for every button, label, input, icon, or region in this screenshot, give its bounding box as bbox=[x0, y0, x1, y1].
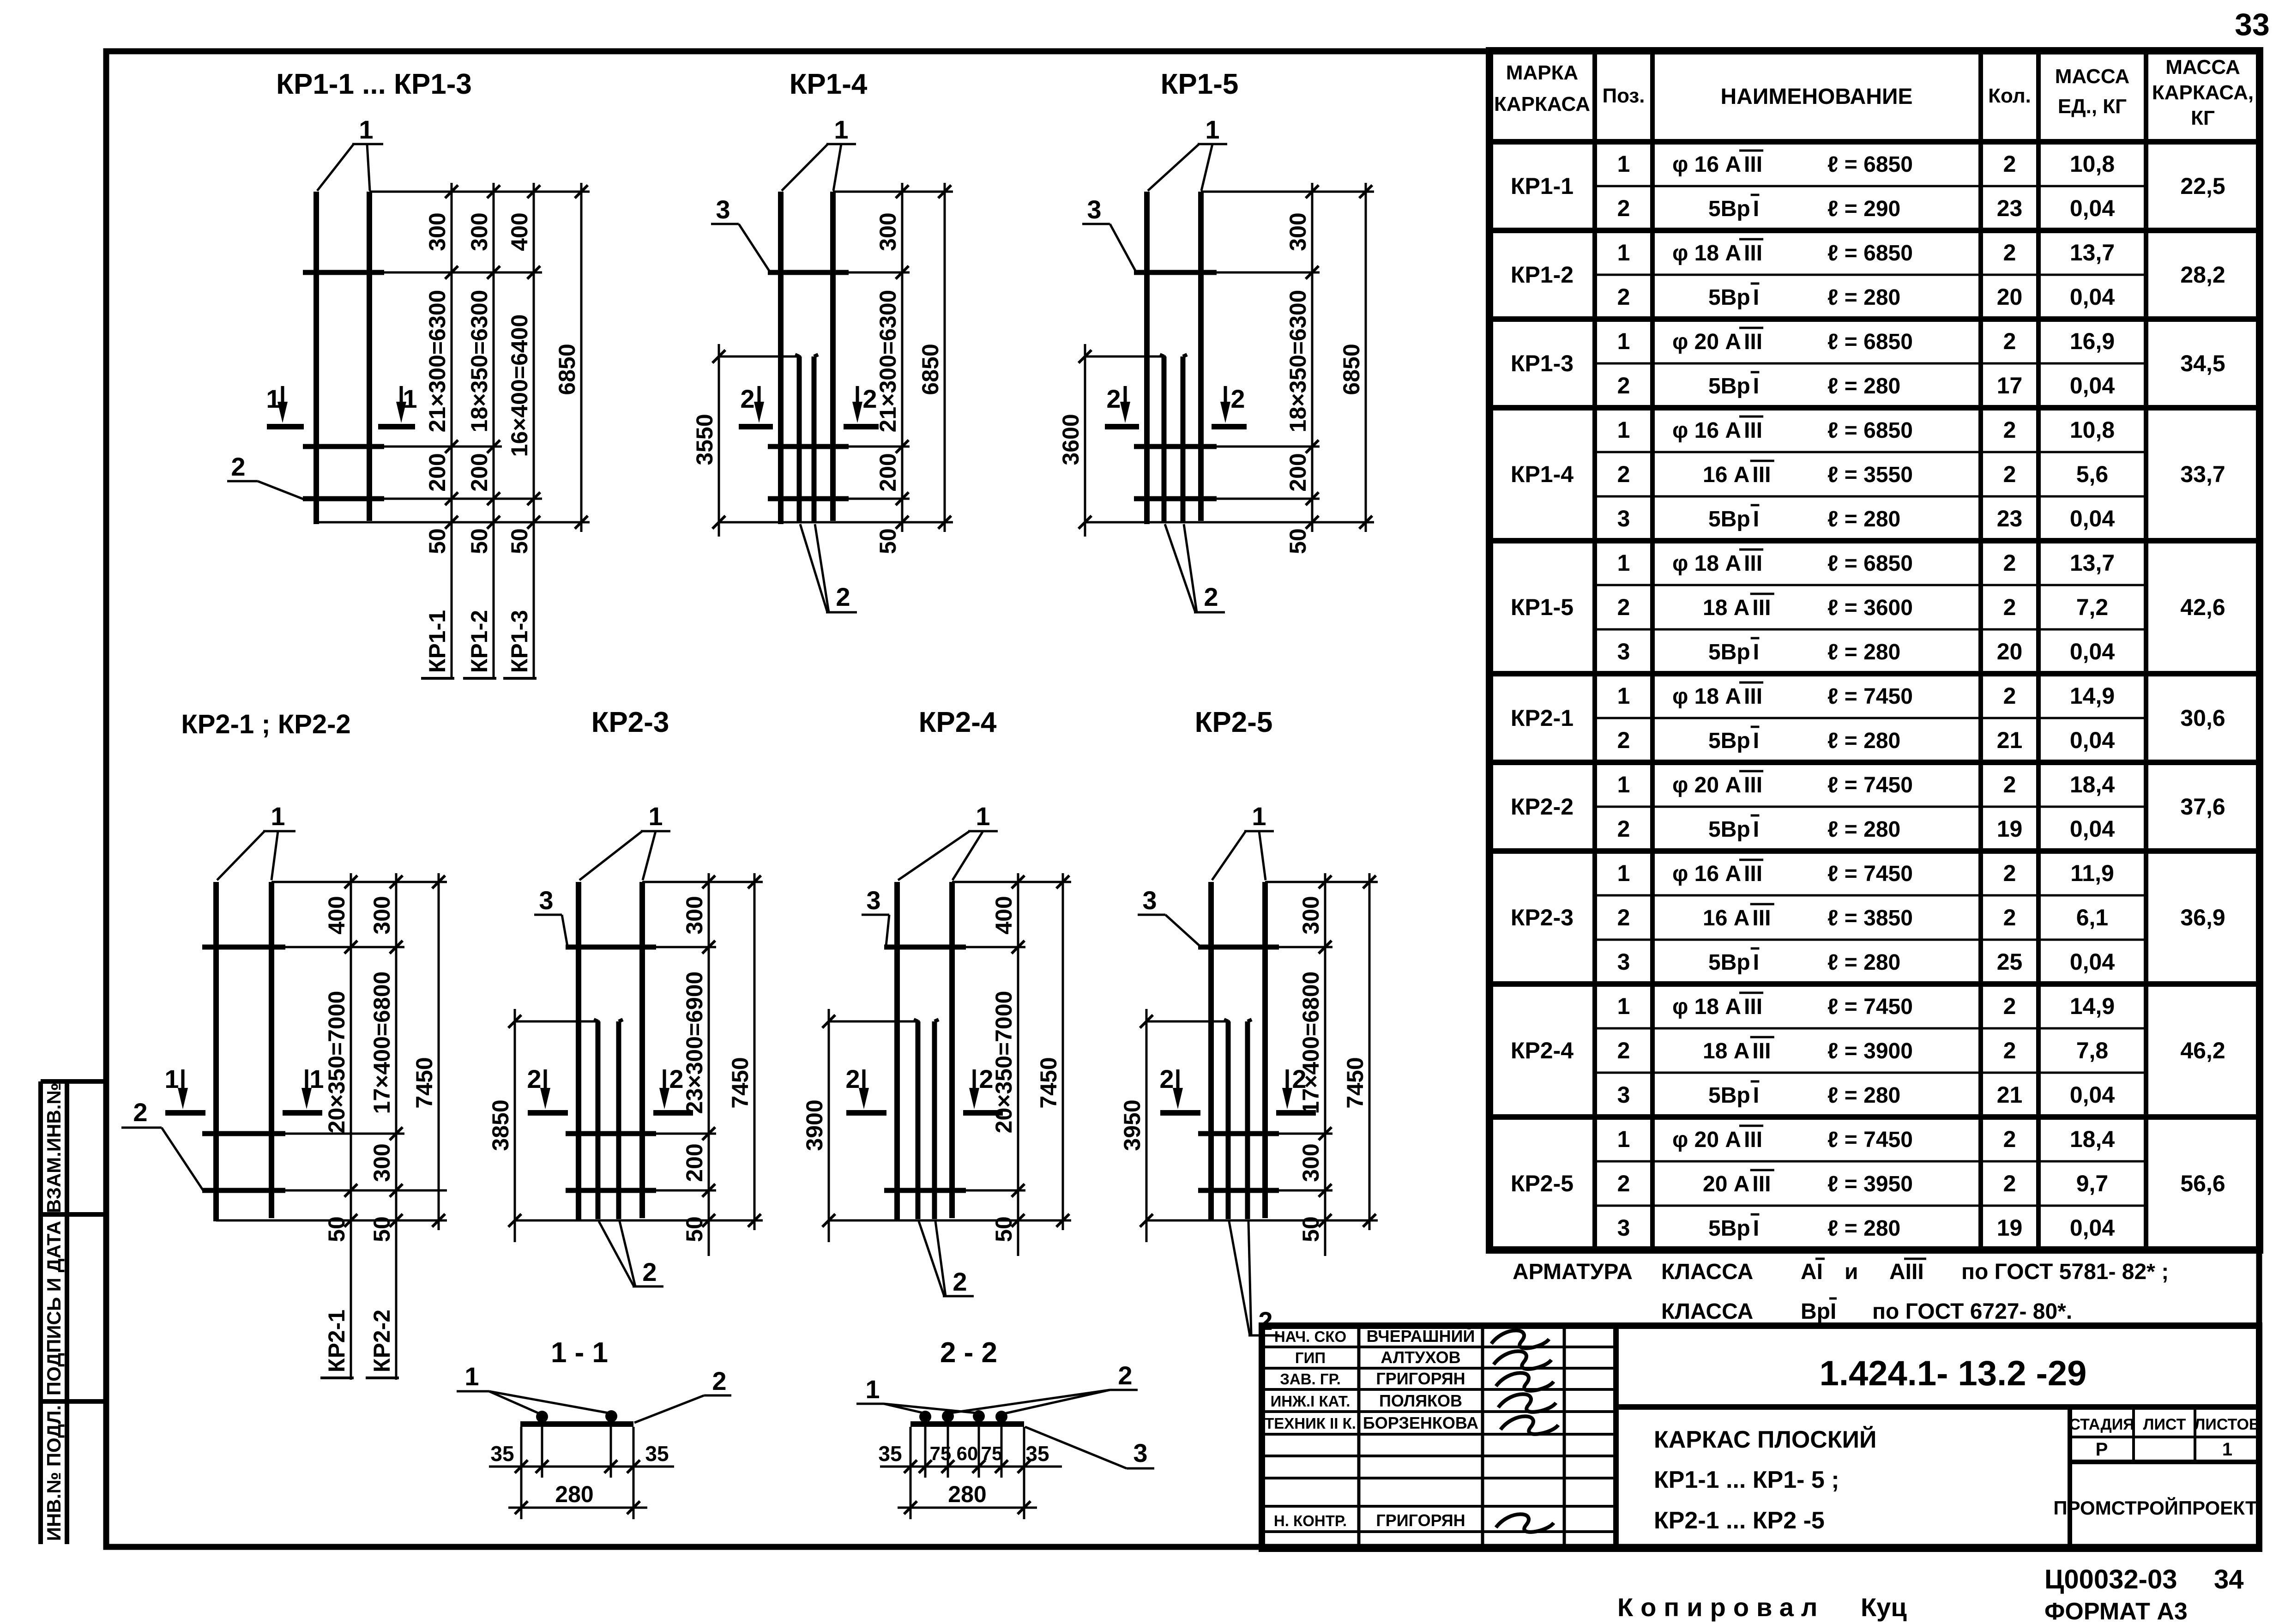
svg-text:3: 3 bbox=[1617, 949, 1630, 975]
svg-text:18 АIII: 18 АIII bbox=[1703, 1039, 1771, 1063]
svg-text:ГИП: ГИП bbox=[1295, 1349, 1326, 1366]
svg-text:ℓ = 3550: ℓ = 3550 bbox=[1827, 463, 1913, 487]
svg-text:ℓ = 7450: ℓ = 7450 bbox=[1827, 684, 1913, 709]
dimension line bbox=[1365, 183, 1367, 532]
svg-text:0,04: 0,04 bbox=[2070, 1082, 2115, 1108]
svg-text:20×350=7000: 20×350=7000 bbox=[991, 991, 1017, 1134]
svg-text:2: 2 bbox=[527, 1064, 541, 1093]
dimension line bbox=[1062, 873, 1064, 1230]
dimension line bbox=[451, 183, 453, 678]
svg-text:АIII: АIII bbox=[1889, 1260, 1924, 1284]
svg-text:0,04: 0,04 bbox=[2070, 816, 2115, 842]
svg-text:21×300=6300: 21×300=6300 bbox=[875, 290, 901, 433]
svg-text:ℓ = 7450: ℓ = 7450 bbox=[1827, 773, 1913, 797]
svg-text:0,04: 0,04 bbox=[2070, 195, 2115, 221]
svg-text:7450: 7450 bbox=[411, 1057, 437, 1108]
table block КР1-2 bbox=[1489, 316, 2260, 322]
KR2-1 longitudinal bar right bbox=[269, 882, 274, 1218]
svg-text:1: 1 bbox=[1617, 860, 1630, 886]
svg-text:ГРИГОРЯН: ГРИГОРЯН bbox=[1376, 1511, 1465, 1530]
svg-text:ℓ = 7450: ℓ = 7450 bbox=[1827, 995, 1913, 1019]
svg-text:7,2: 7,2 bbox=[2076, 594, 2109, 620]
svg-text:2: 2 bbox=[2003, 328, 2016, 354]
КР2-5 witness lines bbox=[1265, 881, 1378, 883]
svg-text:3: 3 bbox=[866, 886, 880, 915]
svg-text:3: 3 bbox=[1617, 1215, 1630, 1241]
КР1-5 tie bottom bbox=[1134, 496, 1217, 501]
svg-text:1.424.1- 13.2 -29: 1.424.1- 13.2 -29 bbox=[1820, 1354, 2087, 1393]
svg-text:10,8: 10,8 bbox=[2070, 417, 2115, 443]
svg-text:КАРКАС ПЛОСКИЙ: КАРКАС ПЛОСКИЙ bbox=[1654, 1426, 1876, 1453]
svg-text:КР2-1 ; КР2-2: КР2-1 ; КР2-2 bbox=[181, 709, 350, 739]
КР2-4 rod pos2 left bbox=[916, 1021, 921, 1219]
svg-text:КАРКАСА: КАРКАСА bbox=[1494, 93, 1590, 115]
table block КР2-2 bbox=[1489, 848, 2260, 854]
table vertical lines bbox=[1592, 51, 1597, 1250]
svg-text:КР1-3: КР1-3 bbox=[1511, 350, 1574, 376]
svg-text:ПОДПИСЬ И ДАТА: ПОДПИСЬ И ДАТА bbox=[43, 1221, 65, 1395]
svg-text:0,04: 0,04 bbox=[2070, 506, 2115, 531]
КР2-4 left dimension bbox=[828, 1009, 830, 1242]
svg-text:2: 2 bbox=[2003, 1038, 2016, 1063]
svg-text:КР2-1: КР2-1 bbox=[1511, 705, 1574, 731]
svg-text:2: 2 bbox=[1617, 284, 1630, 310]
svg-text:ЗАВ. ГР.: ЗАВ. ГР. bbox=[1280, 1370, 1341, 1388]
svg-text:18×350=6300: 18×350=6300 bbox=[1285, 290, 1311, 433]
svg-text:КР2-2: КР2-2 bbox=[1511, 794, 1574, 820]
svg-text:2: 2 bbox=[836, 582, 850, 611]
svg-text:28,2: 28,2 bbox=[2180, 262, 2225, 288]
svg-text:37,6: 37,6 bbox=[2180, 794, 2225, 820]
svg-text:50: 50 bbox=[875, 528, 901, 554]
section 1-1 bar dot right bbox=[605, 1410, 617, 1422]
title block signatures bbox=[1491, 1330, 1549, 1348]
table block КР2-4 bbox=[1489, 1114, 2260, 1120]
svg-text:3: 3 bbox=[1142, 886, 1157, 915]
КР2-5 tie top bbox=[1198, 945, 1279, 950]
svg-text:1: 1 bbox=[834, 115, 848, 144]
svg-text:200: 200 bbox=[1285, 453, 1311, 491]
svg-text:2: 2 bbox=[1204, 582, 1218, 611]
KR2-1 witness lines bbox=[271, 881, 447, 883]
svg-text:17×400=6800: 17×400=6800 bbox=[1298, 972, 1324, 1114]
svg-text:300: 300 bbox=[369, 1143, 395, 1182]
svg-text:200: 200 bbox=[875, 453, 901, 491]
dimension line bbox=[395, 873, 398, 1380]
КР1-5 longitudinal bar right bbox=[1198, 192, 1204, 521]
svg-text:ЛИСТ: ЛИСТ bbox=[2143, 1416, 2186, 1433]
svg-text:2: 2 bbox=[2003, 461, 2016, 487]
svg-text:20: 20 bbox=[1997, 284, 2023, 310]
svg-text:1: 1 bbox=[1617, 151, 1630, 177]
svg-text:1: 1 bbox=[164, 1064, 179, 1093]
svg-text:20×350=7000: 20×350=7000 bbox=[324, 991, 350, 1134]
svg-text:1: 1 bbox=[1617, 328, 1630, 354]
table header bottom line bbox=[1489, 139, 2260, 145]
svg-text:МАССА: МАССА bbox=[2055, 65, 2130, 88]
svg-text:1: 1 bbox=[309, 1064, 324, 1093]
svg-text:Р: Р bbox=[2096, 1439, 2108, 1460]
svg-text:18,4: 18,4 bbox=[2070, 772, 2115, 797]
svg-text:400: 400 bbox=[991, 896, 1017, 934]
dimension line bbox=[493, 183, 495, 678]
svg-text:2: 2 bbox=[1617, 594, 1630, 620]
svg-text:ℓ = 280: ℓ = 280 bbox=[1827, 1216, 1900, 1241]
svg-text:35: 35 bbox=[1025, 1442, 1049, 1466]
svg-text:ℓ = 280: ℓ = 280 bbox=[1827, 1083, 1900, 1108]
svg-text:2: 2 bbox=[642, 1257, 657, 1286]
table block КР1-4 bbox=[1489, 538, 2260, 543]
КР2-3 longitudinal bar right bbox=[639, 882, 645, 1218]
svg-text:1: 1 bbox=[464, 1362, 479, 1391]
svg-text:2: 2 bbox=[2003, 550, 2016, 576]
svg-text:6850: 6850 bbox=[1338, 344, 1364, 395]
dimension line bbox=[580, 183, 583, 532]
svg-text:7450: 7450 bbox=[1342, 1057, 1368, 1108]
svg-text:20 АIII: 20 АIII bbox=[1703, 1172, 1771, 1196]
svg-text:2: 2 bbox=[1617, 373, 1630, 398]
svg-text:33: 33 bbox=[2235, 7, 2270, 42]
svg-text:Кол.: Кол. bbox=[1988, 85, 2031, 107]
side strip label PODPIS I DATA bbox=[43, 1221, 65, 1395]
svg-text:ВЗАМ.ИНВ.№: ВЗАМ.ИНВ.№ bbox=[43, 1083, 65, 1213]
svg-text:1: 1 bbox=[1617, 772, 1630, 797]
КР1-4 tie bottom bbox=[768, 496, 849, 501]
dimension label КР1-2 bbox=[466, 610, 492, 673]
section 1-1 dim line 280 bbox=[508, 1507, 647, 1509]
svg-text:300: 300 bbox=[875, 212, 901, 251]
svg-text:ЕД., КГ: ЕД., КГ bbox=[2058, 95, 2127, 118]
KR1-1 tie bottom bbox=[303, 496, 384, 501]
dimension line bbox=[1369, 873, 1371, 1230]
section 1-1 witness lines bbox=[520, 1427, 523, 1519]
svg-text:КР1-4: КР1-4 bbox=[790, 68, 868, 100]
svg-text:6,1: 6,1 bbox=[2076, 905, 2109, 930]
svg-text:Копировал: Копировал bbox=[1617, 1593, 1825, 1622]
КР1-5 longitudinal bar left bbox=[1144, 192, 1150, 524]
svg-text:0,04: 0,04 bbox=[2070, 639, 2115, 664]
svg-text:6850: 6850 bbox=[554, 344, 580, 395]
svg-text:46,2: 46,2 bbox=[2180, 1038, 2225, 1063]
КР2-5 tie bottom bbox=[1198, 1188, 1279, 1193]
svg-text:50: 50 bbox=[369, 1216, 395, 1242]
svg-text:21×300=6300: 21×300=6300 bbox=[424, 290, 450, 433]
svg-text:50: 50 bbox=[1298, 1216, 1324, 1242]
svg-text:ПОЛЯКОВ: ПОЛЯКОВ bbox=[1379, 1391, 1462, 1410]
svg-text:2: 2 bbox=[1118, 1361, 1132, 1390]
svg-text:КР2-5: КР2-5 bbox=[1511, 1171, 1574, 1196]
svg-text:1: 1 bbox=[359, 115, 373, 144]
svg-text:НАИМЕНОВАНИЕ: НАИМЕНОВАНИЕ bbox=[1721, 85, 1913, 109]
table block КР1-1 bbox=[1489, 228, 2260, 233]
svg-text:φ 20 АIII: φ 20 АIII bbox=[1672, 1128, 1762, 1152]
svg-text:42,6: 42,6 bbox=[2180, 594, 2225, 620]
table block КР2-1 bbox=[1489, 760, 2260, 765]
svg-text:34,5: 34,5 bbox=[2180, 350, 2225, 376]
svg-text:ℓ = 280: ℓ = 280 bbox=[1827, 729, 1900, 753]
title block row lines bbox=[1262, 1346, 1616, 1348]
КР1-4 tie top bbox=[768, 270, 849, 275]
svg-text:3: 3 bbox=[1087, 195, 1101, 224]
svg-text:КР1-1: КР1-1 bbox=[1511, 173, 1574, 199]
svg-text:2: 2 bbox=[2003, 683, 2016, 709]
svg-text:2: 2 bbox=[1617, 1171, 1630, 1196]
svg-text:1: 1 bbox=[266, 384, 280, 413]
svg-text:300: 300 bbox=[466, 212, 492, 251]
svg-text:КР2-4: КР2-4 bbox=[919, 706, 997, 738]
dimension line bbox=[350, 873, 352, 1380]
svg-text:по ГОСТ 6727- 80*.: по ГОСТ 6727- 80*. bbox=[1872, 1299, 2072, 1324]
svg-text:1: 1 bbox=[648, 802, 663, 831]
svg-text:1: 1 bbox=[1617, 240, 1630, 266]
dimension label КР1-3 bbox=[506, 610, 532, 673]
svg-text:7450: 7450 bbox=[1036, 1057, 1061, 1108]
section 2-2 bar dot 4 bbox=[995, 1411, 1007, 1423]
svg-text:300: 300 bbox=[681, 896, 707, 934]
svg-text:21: 21 bbox=[1997, 727, 2023, 753]
svg-text:КР1-5: КР1-5 bbox=[1511, 594, 1574, 620]
svg-text:2: 2 bbox=[2003, 1126, 2016, 1152]
svg-text:2: 2 bbox=[740, 384, 754, 413]
КР2-3 rod pos2 left bbox=[596, 1021, 601, 1219]
КР1-4 longitudinal bar right bbox=[830, 192, 836, 521]
svg-text:МАССА: МАССА bbox=[2165, 56, 2240, 78]
section 2-2 plate wire pos3 bbox=[910, 1421, 1024, 1427]
svg-text:КР2-3: КР2-3 bbox=[591, 706, 669, 738]
svg-text:ℓ = 290: ℓ = 290 bbox=[1827, 197, 1900, 221]
svg-text:ℓ = 280: ℓ = 280 bbox=[1827, 640, 1900, 664]
svg-text:2: 2 bbox=[1617, 816, 1630, 842]
dimension line bbox=[533, 183, 535, 678]
svg-text:ℓ = 280: ℓ = 280 bbox=[1827, 285, 1900, 310]
svg-text:3600: 3600 bbox=[1058, 414, 1084, 465]
title block stadia grid bbox=[2068, 1407, 2072, 1549]
svg-text:300: 300 bbox=[369, 896, 395, 934]
КР2-4 longitudinal bar right bbox=[949, 882, 955, 1218]
svg-text:3950: 3950 bbox=[1119, 1099, 1145, 1151]
title block divider under number bbox=[1616, 1404, 2259, 1410]
svg-text:1: 1 bbox=[1617, 550, 1630, 576]
svg-text:2: 2 bbox=[133, 1098, 147, 1127]
section 1-1 plate wire pos2 bbox=[520, 1421, 633, 1427]
svg-text:СТАДИЯ: СТАДИЯ bbox=[2069, 1416, 2134, 1433]
svg-text:ℓ = 280: ℓ = 280 bbox=[1827, 817, 1900, 842]
svg-text:ВрI: ВрI bbox=[1801, 1299, 1836, 1324]
svg-text:2: 2 bbox=[1230, 384, 1245, 413]
svg-text:φ 18 АIII: φ 18 АIII bbox=[1672, 995, 1762, 1019]
svg-text:280: 280 bbox=[555, 1481, 593, 1507]
table block КР2-3 bbox=[1489, 981, 2260, 987]
svg-text:по ГОСТ 5781- 82* ;: по ГОСТ 5781- 82* ; bbox=[1961, 1260, 2169, 1284]
svg-text:ПРОМСТРОЙПРОЕКТ: ПРОМСТРОЙПРОЕКТ bbox=[2053, 1497, 2257, 1519]
svg-text:2: 2 bbox=[2003, 772, 2016, 797]
svg-text:ℓ = 3600: ℓ = 3600 bbox=[1827, 596, 1913, 620]
svg-text:2: 2 bbox=[712, 1366, 726, 1395]
svg-text:30,6: 30,6 bbox=[2180, 705, 2225, 731]
svg-text:280: 280 bbox=[948, 1481, 986, 1507]
svg-text:16 АIII: 16 АIII bbox=[1703, 463, 1771, 487]
svg-text:22,5: 22,5 bbox=[2180, 173, 2225, 199]
svg-text:17: 17 bbox=[1997, 373, 2023, 398]
svg-text:400: 400 bbox=[506, 212, 532, 251]
svg-text:φ 16 АIII: φ 16 АIII bbox=[1672, 418, 1762, 443]
КР2-4 tie bottom bbox=[884, 1188, 966, 1193]
svg-text:11,9: 11,9 bbox=[2070, 860, 2114, 886]
svg-text:13,7: 13,7 bbox=[2070, 550, 2115, 576]
КР1-5 witness lines bbox=[1201, 191, 1374, 193]
svg-text:75: 75 bbox=[981, 1443, 1003, 1464]
svg-text:23: 23 bbox=[1997, 506, 2023, 531]
svg-text:КР1-1 ... КР1-3: КР1-1 ... КР1-3 bbox=[276, 68, 472, 100]
section 1-1 dim line 35-35 bbox=[489, 1466, 674, 1468]
svg-text:КР1-1 ... КР1- 5 ;: КР1-1 ... КР1- 5 ; bbox=[1654, 1467, 1839, 1493]
svg-text:0,04: 0,04 bbox=[2070, 727, 2115, 753]
svg-text:9,7: 9,7 bbox=[2076, 1171, 2109, 1196]
КР2-5 rod pos2 right bbox=[1245, 1021, 1250, 1219]
svg-text:2: 2 bbox=[1617, 195, 1630, 221]
svg-text:КР1-3: КР1-3 bbox=[506, 610, 532, 673]
КР2-5 longitudinal bar left bbox=[1208, 882, 1214, 1221]
dimension line bbox=[944, 183, 946, 532]
svg-text:Куц: Куц bbox=[1861, 1593, 1907, 1622]
dimension line bbox=[1017, 873, 1019, 1256]
svg-text:КЛАССА: КЛАССА bbox=[1661, 1260, 1753, 1284]
dimension line bbox=[438, 873, 440, 1230]
svg-text:7450: 7450 bbox=[727, 1057, 753, 1108]
svg-text:16,9: 16,9 bbox=[2070, 328, 2115, 354]
svg-text:3: 3 bbox=[1617, 506, 1630, 531]
dimension label КР2-1 bbox=[324, 1310, 350, 1372]
svg-text:1: 1 bbox=[1617, 683, 1630, 709]
svg-text:7,8: 7,8 bbox=[2076, 1038, 2109, 1063]
KR1-1 tie top bbox=[303, 270, 384, 275]
svg-text:2: 2 bbox=[2003, 151, 2016, 177]
КР2-3 tie top bbox=[566, 945, 656, 950]
svg-text:10,8: 10,8 bbox=[2070, 151, 2115, 177]
svg-text:18,4: 18,4 bbox=[2070, 1126, 2115, 1152]
КР1-4 rod pos2 right bbox=[812, 356, 817, 522]
svg-text:14,9: 14,9 bbox=[2070, 993, 2115, 1019]
dimension line bbox=[708, 873, 710, 1256]
svg-text:3: 3 bbox=[1617, 1082, 1630, 1108]
dimension line bbox=[1324, 873, 1326, 1256]
svg-text:2: 2 bbox=[1617, 1038, 1630, 1063]
svg-text:35: 35 bbox=[878, 1442, 902, 1466]
svg-text:КЛАССА: КЛАССА bbox=[1661, 1299, 1753, 1324]
svg-text:2: 2 bbox=[2003, 860, 2016, 886]
svg-text:200: 200 bbox=[681, 1143, 707, 1182]
svg-text:ℓ = 6850: ℓ = 6850 bbox=[1827, 241, 1913, 266]
svg-text:ℓ = 280: ℓ = 280 bbox=[1827, 507, 1900, 531]
svg-text:50: 50 bbox=[681, 1216, 707, 1242]
svg-text:ВЧЕРАШНИЙ: ВЧЕРАШНИЙ bbox=[1367, 1326, 1475, 1346]
svg-text:1: 1 bbox=[271, 802, 285, 831]
svg-text:КР2-2: КР2-2 bbox=[369, 1310, 395, 1372]
КР2-3 left dimension bbox=[514, 1009, 516, 1242]
svg-text:16 АIII: 16 АIII bbox=[1703, 906, 1771, 930]
dimension label КР1-1 bbox=[424, 610, 450, 673]
svg-text:ℓ = 6850: ℓ = 6850 bbox=[1827, 551, 1913, 576]
svg-text:ТЕХНИК II К.: ТЕХНИК II К. bbox=[1265, 1415, 1356, 1432]
svg-text:50: 50 bbox=[324, 1216, 350, 1242]
svg-text:ℓ = 6850: ℓ = 6850 bbox=[1827, 330, 1913, 354]
KR1-1 tie middle bbox=[303, 444, 384, 449]
section 2-2 dim line 35-75-60-75-35 bbox=[880, 1466, 1062, 1468]
svg-text:φ 20 АIII: φ 20 АIII bbox=[1672, 330, 1762, 354]
svg-text:ℓ = 7450: ℓ = 7450 bbox=[1827, 1128, 1913, 1152]
KR2-1 tie mid bbox=[202, 1131, 285, 1136]
КР2-5 longitudinal bar right bbox=[1262, 882, 1268, 1218]
svg-text:200: 200 bbox=[466, 453, 492, 491]
svg-text:φ 18 АIII: φ 18 АIII bbox=[1672, 551, 1762, 576]
table block КР1-5 bbox=[1489, 671, 2260, 676]
svg-text:33,7: 33,7 bbox=[2180, 461, 2225, 487]
КР1-4 tie middle bbox=[768, 444, 849, 449]
КР1-4 rod pos2 left bbox=[797, 356, 802, 522]
КР2-3 longitudinal bar left bbox=[576, 882, 581, 1221]
КР2-3 tie mid bbox=[566, 1131, 656, 1136]
svg-text:КАРКАСА,: КАРКАСА, bbox=[2152, 81, 2254, 104]
svg-text:2: 2 bbox=[1617, 461, 1630, 487]
svg-text:300: 300 bbox=[1298, 896, 1324, 934]
svg-text:0,04: 0,04 bbox=[2070, 1215, 2115, 1241]
КР2-4 longitudinal bar left bbox=[894, 882, 900, 1221]
КР1-5 rod pos2 right bbox=[1181, 356, 1186, 522]
table block КР1-3 bbox=[1489, 405, 2260, 411]
svg-text:200: 200 bbox=[424, 453, 450, 491]
svg-text:300: 300 bbox=[1298, 1143, 1324, 1182]
svg-text:19: 19 bbox=[1997, 816, 2023, 842]
svg-text:36,9: 36,9 bbox=[2180, 905, 2225, 930]
side strip label INV No PODL bbox=[43, 1405, 65, 1541]
svg-text:2: 2 bbox=[1617, 727, 1630, 753]
svg-text:3900: 3900 bbox=[802, 1099, 827, 1151]
svg-text:и: и bbox=[1845, 1260, 1858, 1284]
svg-text:2: 2 bbox=[953, 1267, 967, 1296]
svg-text:5,6: 5,6 bbox=[2076, 461, 2109, 487]
svg-text:20: 20 bbox=[1997, 639, 2023, 664]
svg-text:3850: 3850 bbox=[488, 1099, 513, 1151]
svg-text:φ 16 АIII: φ 16 АIII bbox=[1672, 862, 1762, 886]
КР2-5 left dimension bbox=[1146, 1009, 1148, 1242]
svg-text:ℓ = 6850: ℓ = 6850 bbox=[1827, 418, 1913, 443]
svg-text:17×400=6800: 17×400=6800 bbox=[369, 972, 395, 1114]
svg-text:75: 75 bbox=[930, 1443, 952, 1464]
svg-text:КР2-5: КР2-5 bbox=[1195, 706, 1273, 738]
svg-text:300: 300 bbox=[1285, 212, 1311, 251]
svg-text:2 - 2: 2 - 2 bbox=[940, 1337, 997, 1369]
КР1-4 longitudinal bar left bbox=[778, 192, 784, 524]
svg-text:ℓ = 3850: ℓ = 3850 bbox=[1827, 906, 1913, 930]
svg-text:2: 2 bbox=[1617, 905, 1630, 930]
svg-text:Поз.: Поз. bbox=[1602, 85, 1645, 107]
svg-text:1 - 1: 1 - 1 bbox=[551, 1337, 608, 1369]
section 2-2 bar dot 2 bbox=[942, 1410, 954, 1422]
svg-text:ℓ = 6850: ℓ = 6850 bbox=[1827, 152, 1913, 177]
svg-text:2: 2 bbox=[2003, 1171, 2016, 1196]
svg-text:КР2-4: КР2-4 bbox=[1511, 1038, 1574, 1063]
КР2-4 tie top bbox=[884, 945, 966, 950]
svg-text:1: 1 bbox=[1617, 417, 1630, 443]
КР2-4 rod pos2 right bbox=[932, 1021, 937, 1219]
svg-text:34: 34 bbox=[2214, 1564, 2244, 1594]
svg-text:БОРЗЕНКОВА: БОРЗЕНКОВА bbox=[1363, 1413, 1478, 1432]
svg-text:23: 23 bbox=[1997, 195, 2023, 221]
svg-text:16×400=6400: 16×400=6400 bbox=[506, 314, 532, 457]
svg-text:КР2-1: КР2-1 bbox=[324, 1310, 350, 1372]
svg-text:МАРКА: МАРКА bbox=[1506, 61, 1578, 84]
side strip column boxes bbox=[38, 1081, 43, 1544]
